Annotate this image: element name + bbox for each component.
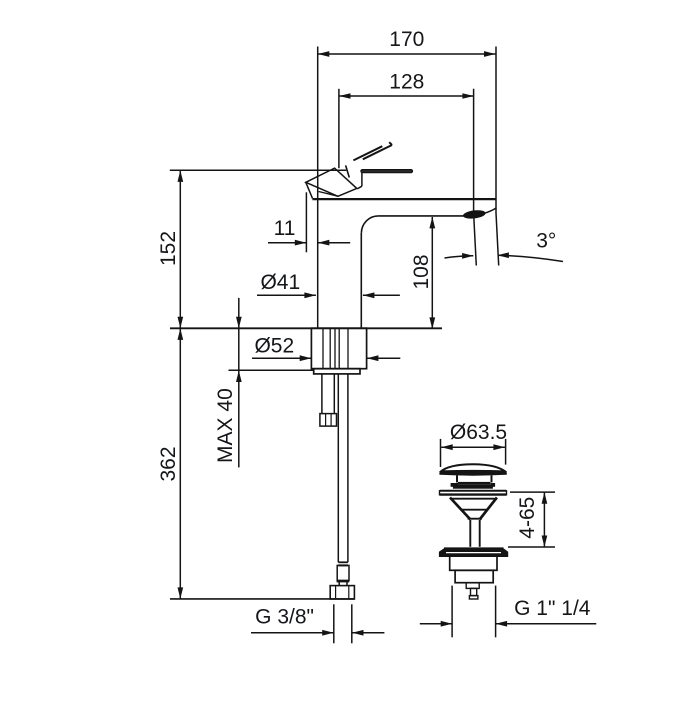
dimension D52 arrow left (points right) — [300, 355, 312, 361]
drain funnel upper bar — [452, 498, 494, 500]
dimension 362 arrow bottom — [178, 587, 184, 599]
svg-text:128: 128 — [389, 71, 424, 94]
dimension 152 arrow bottom — [178, 317, 184, 329]
drain tail stem — [471, 588, 477, 595]
dimension 170 line — [318, 53, 496, 55]
dimension 4-65 arrow bottom — [542, 536, 548, 548]
dimension D63.5 arrow left — [441, 444, 453, 450]
extension line 4-65 bottom — [508, 546, 555, 548]
dimension 11 left shaft — [268, 242, 306, 244]
extension line G1-1/4 left — [451, 586, 453, 638]
extension line D63.5 right — [505, 439, 507, 465]
hose nut inner line 2 — [348, 586, 350, 599]
svg-text:Ø41: Ø41 — [260, 271, 300, 294]
hose end nut — [330, 586, 354, 599]
svg-text:108: 108 — [410, 254, 433, 289]
drain plug tab left — [451, 483, 458, 487]
reference line top of handle (152) — [170, 169, 346, 171]
3 degree arc left segment — [445, 256, 474, 258]
drain body step 2 — [455, 570, 493, 582]
dimension 362 arrow top — [178, 328, 184, 340]
drain plug post right — [491, 475, 493, 482]
hose neck right — [346, 580, 348, 585]
hose band 2 — [338, 564, 348, 566]
flange internal line 4 — [338, 329, 340, 369]
supply hose right edge — [347, 374, 349, 562]
drain top plate lower line — [439, 493, 507, 495]
3 degree arrow left-segment tip — [462, 253, 474, 259]
drain plug band A — [458, 482, 490, 485]
hose neck left — [338, 580, 340, 585]
drain top plate upper line — [439, 490, 507, 492]
threaded rod left edge — [321, 374, 323, 414]
drain lower flange body — [440, 549, 508, 556]
extension line G3/8 left — [333, 604, 335, 643]
dimension 4-65 arrow top — [542, 492, 548, 504]
dimension D63.5 line — [441, 446, 505, 448]
supply hose left edge — [337, 374, 339, 562]
dimension 11 right shaft — [318, 242, 350, 244]
drain top plate end right — [506, 490, 508, 495]
handle rear edge — [306, 182, 313, 198]
dimension G1-1/4 right shaft — [496, 623, 597, 625]
dimension MAX40 arrow upper (points down) — [236, 317, 242, 329]
extension line left (170) / faucet back edge — [317, 47, 319, 329]
extension line left (128) — [338, 89, 340, 168]
hose band 1 — [338, 561, 348, 563]
flange bottom bar — [314, 369, 360, 374]
drain top plate end left — [439, 490, 441, 495]
dimension 152 arrow top — [178, 170, 184, 182]
svg-text:3°: 3° — [536, 229, 556, 252]
dimension MAX40 upper shaft — [238, 298, 240, 468]
spout underside line — [378, 215, 464, 217]
lever base front lower link — [357, 186, 362, 189]
dimension 11 arrow right (points left) — [318, 240, 330, 246]
dimension G3/8 arrow left (points right) — [322, 630, 334, 636]
raised lever end hook — [389, 142, 392, 145]
drain funnel outer left — [450, 498, 470, 520]
dimension 152 line — [179, 170, 181, 328]
svg-text:362: 362 — [157, 446, 180, 481]
dimension MAX40 arrow lower (points up) — [236, 371, 242, 383]
handle knob (rotated square) — [306, 168, 357, 196]
dimension G3/8 arrow right (points left) — [352, 630, 364, 636]
svg-text:Ø52: Ø52 — [254, 334, 294, 357]
dimension D41 left shaft — [257, 294, 316, 296]
spout top line — [312, 198, 496, 200]
extension line right (170, tilted 3deg) — [496, 47, 499, 266]
dimension D41 arrow left (points right) — [304, 292, 316, 298]
drain plug post left — [456, 475, 458, 482]
svg-text:11: 11 — [274, 217, 296, 240]
svg-text:4-65: 4-65 — [516, 497, 539, 539]
flange internal line 5 — [347, 329, 349, 369]
dimension D52 right shaft — [367, 357, 400, 359]
svg-text:152: 152 — [157, 231, 180, 266]
svg-text:MAX 40: MAX 40 — [214, 388, 237, 463]
extension line D63.5 left — [440, 439, 442, 467]
extension line G1-1/4 right — [495, 586, 497, 638]
drain dome rim (filled band) — [440, 470, 507, 475]
dimension D41 right shaft — [363, 294, 400, 296]
dimension 108 arrow top — [429, 217, 435, 229]
dimension G3/8 left shaft — [251, 632, 334, 634]
raised lever line 2 — [363, 145, 392, 159]
base flange (escutcheon) — [311, 328, 366, 369]
dimension 128 arrow right — [462, 93, 474, 99]
rod nut inner line 2 — [330, 414, 332, 427]
rod nut inner line 1 — [325, 414, 327, 427]
drain tail stub — [466, 583, 479, 589]
3 degree arc right segment — [498, 255, 563, 261]
dimension 128 arrow left — [339, 93, 351, 99]
drain funnel rung 2 — [461, 509, 487, 511]
dimension G1-1/4 arrow left (points right) — [441, 621, 453, 627]
drain stem left — [469, 520, 471, 547]
dimension G1-1/4 arrow right (points left) — [496, 621, 508, 627]
dimension 170 arrow left — [318, 51, 330, 57]
threaded rod right edge — [333, 374, 335, 414]
dimension 4-65 line — [543, 492, 545, 547]
drain lower flange top line — [444, 547, 504, 549]
hose sleeve — [337, 565, 349, 580]
svg-text:170: 170 — [389, 28, 424, 51]
3 degree arrow right-segment tip — [497, 252, 509, 258]
drain stem right — [479, 520, 481, 547]
dimension 128 line — [339, 95, 474, 97]
dimension D52 arrow right (points left) — [367, 355, 379, 361]
dimension 11 arrow left (points right) — [295, 240, 307, 246]
drain body step 1 — [450, 556, 497, 570]
raised lever line 1 — [353, 146, 382, 160]
spout underside corner arc — [361, 216, 378, 233]
handle inner slant line — [319, 192, 338, 197]
drain dome cap top arc — [440, 464, 507, 472]
hose nut inner line 1 — [335, 586, 337, 599]
aerator (filled) — [462, 209, 486, 220]
dimension G1-1/4 left shaft — [420, 623, 452, 625]
drain funnel outer right — [480, 498, 497, 520]
dimension D41 arrow right (points left) — [363, 292, 375, 298]
lever base front edge — [361, 173, 363, 187]
dimension D52 left shaft — [252, 357, 311, 359]
extension line flange bottom (MAX40) — [229, 369, 314, 371]
svg-text:Ø63.5: Ø63.5 — [450, 421, 507, 444]
dimension 108 line — [431, 217, 433, 329]
dimension 170 arrow right — [484, 51, 496, 57]
dimension G3/8 right shaft — [352, 632, 384, 634]
drain funnel tip band — [468, 518, 482, 520]
counter mounting surface line — [170, 327, 442, 329]
extension line G3/8 right — [351, 604, 353, 643]
flange internal line 2 — [329, 329, 331, 369]
dimension 108 arrow bottom — [429, 317, 435, 329]
dimension 362 line — [179, 328, 181, 599]
drain plug tab right — [491, 483, 496, 487]
drain lower flange highlight sliver — [446, 552, 501, 554]
faucet body front edge — [360, 233, 362, 328]
spout tip curve — [485, 208, 497, 213]
extension line for 11 (handle rear) — [305, 192, 307, 252]
flange internal line 1 — [322, 329, 324, 369]
lever pivot tick — [346, 165, 350, 177]
svg-text:G 3/8": G 3/8" — [255, 605, 314, 628]
svg-text:G 1" 1/4: G 1" 1/4 — [514, 597, 591, 620]
hose sleeve bottom band — [337, 580, 350, 582]
hose end reference baseline — [170, 598, 354, 600]
dimension D63.5 arrow right — [493, 444, 505, 450]
flange internal line 3 — [334, 329, 336, 369]
rod nut — [320, 414, 337, 427]
lever bar (closed position) — [361, 170, 413, 173]
extension line right (128, tilted 3deg) — [474, 89, 477, 266]
drain plug band B — [453, 485, 493, 489]
drain tail flare — [469, 596, 478, 599]
extension line 4-65 top — [510, 491, 555, 493]
